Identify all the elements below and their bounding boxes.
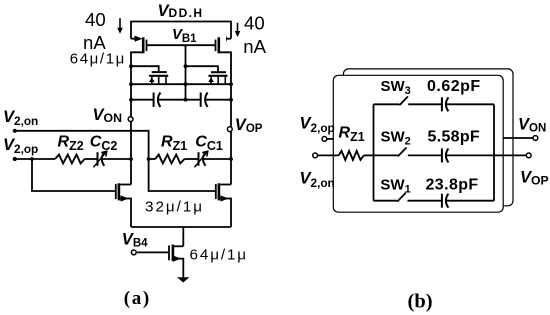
svg-text:5.58pF: 5.58pF: [428, 129, 481, 146]
svg-text:40: 40: [85, 9, 106, 30]
svg-text:nA: nA: [243, 36, 266, 57]
svg-text:23.8pF: 23.8pF: [426, 176, 479, 193]
svg-text:0.62pF: 0.62pF: [427, 78, 481, 95]
svg-text:64μ/1μ: 64μ/1μ: [70, 51, 126, 68]
svg-text:64μ/1μ: 64μ/1μ: [190, 246, 248, 263]
svg-text:nA: nA: [83, 32, 106, 53]
svg-text:32μ/1μ: 32μ/1μ: [145, 198, 204, 215]
svg-text:(b): (b): [408, 291, 433, 313]
svg-text:(a): (a): [124, 288, 151, 309]
svg-text:40: 40: [244, 13, 265, 34]
